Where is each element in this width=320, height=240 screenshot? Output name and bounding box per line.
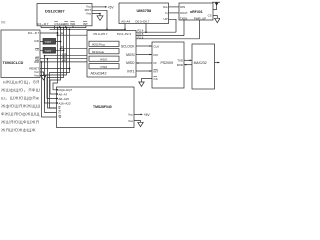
svg-text:Vss: Vss bbox=[128, 119, 133, 123]
wire down to flash G bbox=[45, 56, 57, 113]
wire U2 Out to U3 DIN bbox=[169, 6, 180, 8]
encoder U2 UM3758 bbox=[119, 3, 169, 24]
bus line2 under RTC bbox=[50, 28, 126, 30]
wire MOSI to DO bbox=[136, 54, 152, 56]
buffer A1 bbox=[43, 39, 56, 45]
svg-text:CE: CE bbox=[35, 47, 39, 51]
U2 bottom pin labels bbox=[121, 19, 149, 23]
U4 internal block row1 bbox=[89, 41, 119, 46]
RTC pin drop D0~D7 bbox=[40, 26, 42, 28]
RTC pin drop CS bbox=[54, 26, 56, 30]
wire U7 WR to MCU bbox=[40, 61, 87, 63]
svg-text:A8~A15: A8~A15 bbox=[59, 97, 70, 101]
svg-text:CS: CS bbox=[154, 77, 158, 81]
wire down to flash E bbox=[48, 59, 57, 108]
wire P2.5 bbox=[136, 35, 184, 37]
wire U3 PWR_UP down to MCU P2.6 bbox=[199, 20, 201, 39]
RTC U1 DS12C887 bbox=[37, 4, 92, 26]
svg-text:ФЖШЯЮфЖШЩ: ФЖШЯЮфЖШЩ bbox=[1, 112, 40, 117]
U4 internal block PSM bbox=[89, 64, 119, 69]
U1 right pin labels bbox=[85, 5, 92, 16]
U8 pin overlines bbox=[59, 106, 62, 115]
wire U3 TXEN down to MCU P2.5 bbox=[183, 20, 185, 36]
svg-text:WR: WR bbox=[34, 60, 39, 64]
ground U8 bbox=[138, 122, 143, 126]
svg-text:E: E bbox=[59, 106, 61, 110]
junction dots bbox=[41, 13, 147, 70]
svg-text:TMS28F040: TMS28F040 bbox=[93, 105, 112, 109]
buffer A2 bbox=[43, 48, 56, 54]
wire U7 CE via buffer bbox=[40, 49, 64, 51]
T6963 pin overlines bbox=[35, 49, 39, 61]
wire U7 D0~D7 to bus bbox=[40, 32, 58, 34]
page body text lines bbox=[1, 80, 40, 133]
svg-text:nRF401: nRF401 bbox=[190, 10, 203, 14]
RTC pin drop WR bbox=[72, 26, 74, 28]
svg-text:D0~D7: D0~D7 bbox=[37, 22, 49, 26]
svg-text:Out: Out bbox=[163, 5, 168, 9]
ground U3 bbox=[215, 18, 220, 22]
svg-text:INT: INT bbox=[154, 69, 159, 73]
wire RXD to MAX232 bbox=[184, 64, 192, 66]
U7 pin labels bbox=[28, 31, 40, 78]
svg-text:P2: P2 bbox=[61, 45, 65, 49]
wire U1 MOT down to bus bbox=[92, 10, 107, 29]
wire U7 RD to MCU bbox=[40, 58, 87, 60]
svg-text:DS12C887: DS12C887 bbox=[45, 9, 65, 14]
wire P2.4 bbox=[136, 31, 176, 33]
bus to MCU P2 bbox=[61, 48, 88, 50]
ground U7 bbox=[41, 76, 46, 80]
svg-text:пв: пв bbox=[1, 20, 6, 25]
svg-text:TXD: TXD bbox=[177, 58, 183, 62]
svg-text:P2.0~P2.3: P2.0~P2.3 bbox=[117, 32, 131, 36]
svg-text:PS2009: PS2009 bbox=[161, 61, 174, 65]
wire U2 D0 down to P2.4 line bbox=[145, 24, 147, 33]
INT CS overlines U5 bbox=[154, 69, 158, 76]
svg-text:DIN: DIN bbox=[180, 5, 185, 9]
flash memory U8 TMS28F040 bbox=[57, 87, 135, 128]
svg-text:PSM: PSM bbox=[101, 65, 108, 69]
wire U8 Vcc to +5V bbox=[134, 113, 141, 115]
svg-text:CLK: CLK bbox=[154, 44, 160, 48]
wire ALE to MCU bbox=[45, 55, 88, 57]
bus vertical A bbox=[53, 28, 58, 90]
wire MISO to DI bbox=[136, 62, 152, 64]
RTC pin drop ALE bbox=[59, 26, 61, 28]
RF transceiver U3 nRF401 bbox=[179, 3, 213, 20]
svg-text:TXEN: TXEN bbox=[180, 16, 187, 20]
svg-text:RXD: RXD bbox=[177, 63, 183, 67]
U5 left pin labels bbox=[154, 44, 160, 81]
svg-text:DI: DI bbox=[154, 61, 157, 65]
MCU U4 ADuC842 bbox=[87, 31, 136, 78]
U4 right side port labels bbox=[138, 29, 144, 40]
U8 left pin labels bbox=[59, 88, 73, 119]
svg-text:T6963CLCD: T6963CLCD bbox=[3, 61, 24, 65]
svg-text:+5V: +5V bbox=[108, 5, 115, 9]
svg-text:DOUT: DOUT bbox=[180, 11, 188, 15]
svg-text:MISO: MISO bbox=[126, 61, 135, 65]
svg-text:ЖШЯЮЩФШЖЯ: ЖШЯЮЩФШЖЯ bbox=[1, 120, 39, 125]
wire CS to ground bbox=[142, 79, 153, 83]
bus vertical C bbox=[47, 28, 64, 99]
pin overlines U1 bbox=[54, 21, 87, 23]
serial chip U5 PS2009 bbox=[152, 42, 184, 88]
svg-text:In: In bbox=[165, 11, 168, 15]
svg-text:8051Plug: 8051Plug bbox=[92, 42, 105, 46]
svg-text:DO: DO bbox=[154, 53, 159, 57]
U8 pin bullets bbox=[56, 89, 58, 104]
U1 bottom pin labels bbox=[37, 22, 88, 26]
wire U2 UP down to MCU P2.4 bbox=[169, 19, 177, 32]
svg-text:A0~A4: A0~A4 bbox=[121, 19, 130, 23]
wire U1 Vcc to +5V bbox=[92, 6, 105, 8]
U4 SPI pin labels bbox=[121, 44, 135, 73]
bus vertical D bbox=[45, 28, 67, 103]
svg-text:INT1: INT1 bbox=[127, 69, 134, 73]
antenna bbox=[213, 2, 217, 9]
svg-text:SCLOCK: SCLOCK bbox=[121, 44, 135, 48]
svg-text:CS: CS bbox=[208, 13, 212, 17]
svg-text:A0~A7: A0~A7 bbox=[59, 92, 68, 96]
ground U1 bbox=[97, 16, 103, 21]
svg-text:+5V: +5V bbox=[144, 113, 151, 117]
bus to MCU P0 bbox=[58, 34, 88, 36]
wire P2.6 bbox=[136, 38, 200, 40]
svg-text:A16~A23: A16~A23 bbox=[59, 101, 71, 105]
wire U2 In to U3 DOUT bbox=[169, 12, 180, 14]
RTC pin drop RD bbox=[65, 26, 67, 28]
wire U2 A0~A4 down to bus bbox=[124, 24, 126, 30]
svg-text:UM3758: UM3758 bbox=[137, 8, 153, 13]
wire U7 C/D via buffer bbox=[40, 41, 61, 43]
ground CS bbox=[139, 82, 144, 86]
bus line1 under RTC bbox=[41, 27, 86, 29]
svg-text:D0.0~D0.7: D0.0~D0.7 bbox=[136, 19, 150, 23]
svg-text:PWR_UP: PWR_UP bbox=[194, 16, 206, 20]
svg-text:WR: WR bbox=[62, 58, 67, 62]
svg-text:MOSI: MOSI bbox=[126, 53, 135, 57]
wire U3 CS to ground bbox=[213, 16, 217, 19]
wire TXD to MAX232 bbox=[184, 59, 192, 61]
U2 right pin labels bbox=[163, 5, 168, 21]
bus vertical B bbox=[50, 28, 61, 94]
RTC pin drop INT bbox=[85, 26, 87, 28]
LCD module U7 T6963CLCD bbox=[1, 30, 40, 78]
svg-text:UP: UP bbox=[163, 17, 167, 21]
svg-text:8432Jale: 8432Jale bbox=[92, 50, 105, 54]
wire INT1 to RST bbox=[136, 70, 152, 72]
wire U7 RESET bbox=[40, 68, 70, 70]
svg-text:ЖфЮШЯЖЖЩШ: ЖфЮШЯЖЖЩШ bbox=[1, 104, 40, 109]
svg-text:ЖЯШЮЖфЩЖ: ЖЯШЮЖфЩЖ bbox=[1, 127, 36, 132]
svg-text:WR: WR bbox=[70, 22, 76, 26]
U3 pin labels bbox=[180, 5, 212, 20]
wire down to flash W bbox=[42, 62, 57, 117]
U4 internal block row2 bbox=[89, 49, 119, 54]
svg-text:D0~D7: D0~D7 bbox=[28, 31, 40, 35]
bus vertical E bbox=[50, 29, 70, 108]
U4 top pin labels bbox=[94, 32, 132, 36]
U8 right pin labels bbox=[128, 113, 133, 123]
svg-text:WDG: WDG bbox=[100, 57, 108, 61]
svg-text:7407: 7407 bbox=[45, 49, 52, 53]
svg-text:MAX232: MAX232 bbox=[194, 61, 207, 65]
svg-text:W: W bbox=[59, 115, 62, 119]
wire SCLOCK to CLK bbox=[136, 45, 152, 47]
RS232 out arrow bbox=[215, 62, 219, 64]
svg-text:Vcc: Vcc bbox=[128, 113, 133, 117]
wire U1 Vss to ground bbox=[92, 14, 100, 16]
svg-text:Vss: Vss bbox=[86, 11, 91, 15]
svg-text:7407: 7407 bbox=[45, 40, 52, 44]
svg-text:P0: P0 bbox=[61, 32, 65, 36]
bus net labels bbox=[61, 32, 67, 63]
svg-text:P0.0~P0.7: P0.0~P0.7 bbox=[94, 32, 108, 36]
U5 right pin labels bbox=[177, 58, 183, 66]
wire U7 Vcc Vss to ground bbox=[40, 72, 44, 76]
svg-text:INT: INT bbox=[83, 22, 88, 26]
wire U8 Vss to ground bbox=[134, 121, 141, 123]
U4 internal block WDG bbox=[89, 56, 119, 61]
svg-text:C/D: C/D bbox=[34, 39, 39, 43]
driver U6 MAX232 bbox=[192, 44, 215, 89]
svg-text:Vss: Vss bbox=[34, 74, 39, 78]
svg-text:ADuC842: ADuC842 bbox=[91, 72, 107, 76]
